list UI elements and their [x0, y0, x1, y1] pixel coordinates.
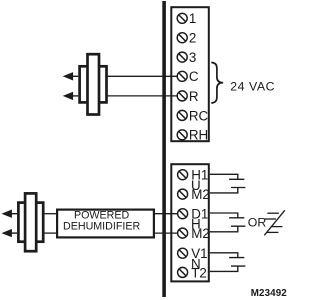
- line-voltage connector symbol (bottom): [18, 193, 43, 251]
- svg-text:M2: M2: [191, 226, 210, 241]
- wire: connector to terminal C: [106, 75, 177, 77]
- wire: dehumidifier to D1: [154, 213, 178, 215]
- terminal screw R: [177, 91, 187, 101]
- terminal screw V1: [178, 248, 188, 258]
- terminal screw H1: [178, 170, 188, 180]
- svg-text:3: 3: [189, 50, 196, 65]
- svg-text:24 VAC: 24 VAC: [230, 79, 275, 93]
- terminal screw D1: [178, 209, 188, 219]
- wire: connector to dehumidifier (M2 side): [44, 232, 58, 234]
- terminal screw T2: [178, 267, 188, 277]
- powered dehumidifier box: [57, 210, 154, 238]
- dry contact for V1/T2: [210, 253, 246, 272]
- arrow to line neutral: [2, 229, 18, 237]
- svg-text:RH: RH: [189, 128, 208, 143]
- connector tall body: [88, 54, 100, 114]
- 24V transformer connector symbol (top): [80, 54, 107, 114]
- terminal screw RH: [177, 130, 187, 140]
- terminal screw RC: [177, 110, 187, 120]
- svg-text:C: C: [189, 69, 199, 84]
- svg-text:RC: RC: [189, 108, 209, 123]
- wire: connector to terminal R: [106, 95, 177, 97]
- arrow to 24V hot: [63, 72, 78, 80]
- svg-text:R: R: [189, 89, 199, 104]
- terminal screw C: [177, 71, 187, 81]
- terminal screw 2: [177, 33, 187, 43]
- arrow to 24V common: [63, 92, 78, 100]
- connector tall body: [25, 193, 36, 251]
- brace grouping C and R: [211, 62, 223, 103]
- dry contact for H1/M2: [210, 174, 246, 193]
- wire: connector to dehumidifier (D1 side): [44, 213, 58, 215]
- svg-text:OR: OR: [248, 216, 267, 230]
- humidistat (alternative) symbol: [264, 210, 285, 235]
- connector wide body: [80, 66, 107, 102]
- terminal screw M2 (fan): [178, 189, 188, 199]
- connector wide body: [18, 203, 43, 242]
- svg-text:2: 2: [189, 31, 196, 46]
- wire: dehumidifier to M2: [154, 232, 178, 234]
- top terminal block outline: [171, 7, 209, 141]
- svg-text:1: 1: [189, 11, 196, 26]
- dry contact for D1/M2: [210, 213, 246, 232]
- terminal screw 1: [177, 13, 187, 23]
- svg-text:T2: T2: [191, 265, 207, 280]
- wall / mounting surface thick vertical line: [162, 1, 166, 297]
- svg-text:M2: M2: [191, 187, 210, 202]
- terminal screw M2 (dehum): [178, 228, 188, 238]
- terminal screw 3: [177, 52, 187, 62]
- bottom terminal block outline: [171, 164, 209, 281]
- svg-text:M23492: M23492: [251, 288, 287, 299]
- svg-text:DEHUMIDIFIER: DEHUMIDIFIER: [63, 221, 140, 233]
- arrow to line hot: [2, 210, 18, 218]
